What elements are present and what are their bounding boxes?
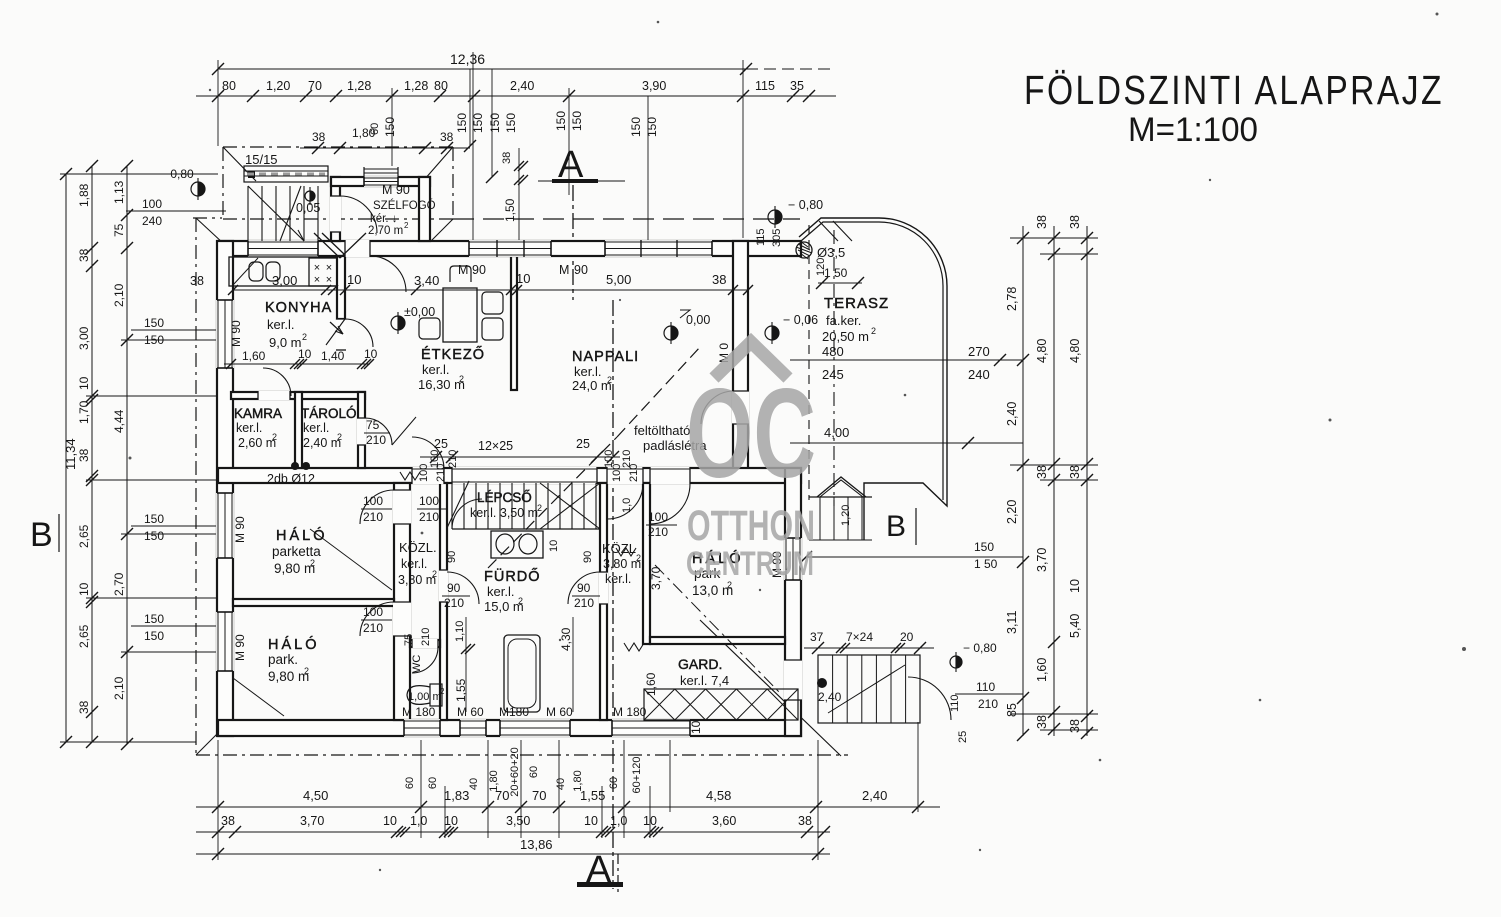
svg-text:4,80: 4,80 bbox=[1068, 339, 1082, 363]
door opening mid wall kozl2 bbox=[607, 467, 643, 484]
svg-text:60+120: 60+120 bbox=[631, 756, 643, 793]
svg-text:90: 90 bbox=[472, 263, 486, 277]
svg-text:10: 10 bbox=[1068, 579, 1082, 593]
svg-text:×: × bbox=[326, 274, 332, 286]
toilet bbox=[430, 684, 442, 706]
door arc furdo bbox=[447, 572, 479, 604]
window label 150/150 right halo3 bbox=[806, 556, 1023, 558]
svg-text:ker.l. 7,4: ker.l. 7,4 bbox=[680, 673, 729, 688]
svg-text:38: 38 bbox=[1068, 465, 1082, 479]
svg-text:10: 10 bbox=[347, 272, 361, 287]
lepcso stair treads 12x25 bbox=[451, 483, 453, 529]
svg-text:16,30 m: 16,30 m bbox=[418, 377, 465, 392]
svg-text:4,50: 4,50 bbox=[303, 788, 328, 803]
lepcso diagonal cross bbox=[540, 483, 600, 529]
svg-text:− 0,06: − 0,06 bbox=[783, 313, 818, 327]
svg-text:2,10: 2,10 bbox=[112, 283, 126, 307]
svg-text:2,40: 2,40 bbox=[862, 788, 887, 803]
dim line etkezo nappali y290 bbox=[345, 289, 748, 291]
svg-text:10: 10 bbox=[689, 720, 703, 734]
entry arrow V bbox=[314, 233, 340, 258]
svg-text:1,50: 1,50 bbox=[503, 198, 517, 222]
svg-text:210: 210 bbox=[435, 464, 447, 482]
roof eave segment above kitchen bbox=[193, 217, 222, 219]
porch eave diagonal bottom-right bbox=[430, 219, 453, 242]
window bottom wall furdo M180 bbox=[500, 719, 570, 737]
svg-text:150: 150 bbox=[144, 333, 164, 347]
svg-text:75: 75 bbox=[112, 223, 126, 237]
dim chain top row overall 12,36 bbox=[218, 68, 746, 70]
door opening kamra top bbox=[258, 391, 290, 400]
svg-text:1,83: 1,83 bbox=[444, 788, 469, 803]
svg-text:OC: OC bbox=[686, 362, 816, 504]
wall interior middle horizontal bbox=[218, 468, 801, 483]
side porch gable bbox=[817, 477, 866, 497]
svg-text:2: 2 bbox=[272, 432, 277, 442]
dim vertical 1,50 below A mark bbox=[518, 148, 520, 241]
terasz posts line dash-dot bbox=[833, 230, 835, 506]
room diagonal halo park bbox=[233, 678, 284, 716]
svg-text:150: 150 bbox=[144, 529, 164, 543]
wall kamra/tarolo divider bbox=[295, 392, 302, 468]
watermark OC letters bbox=[686, 362, 816, 583]
svg-text:KÖZL: KÖZL bbox=[602, 541, 636, 556]
svg-text:2: 2 bbox=[310, 558, 315, 568]
bathtub bbox=[504, 635, 540, 712]
svg-text:150: 150 bbox=[455, 113, 469, 133]
svg-text:150: 150 bbox=[629, 117, 643, 137]
door arc mid wall kozl1 to nappali bbox=[412, 437, 444, 469]
door arc mid wall kozl2 to nappali bbox=[607, 483, 643, 519]
svg-text:ÉTKEZŐ: ÉTKEZŐ bbox=[421, 346, 485, 363]
door opening szelfogo left wall bbox=[330, 196, 341, 232]
wall szelfogo top bbox=[331, 177, 430, 186]
svg-text:1,40: 1,40 bbox=[321, 349, 345, 363]
svg-text:10: 10 bbox=[444, 814, 458, 828]
dim chain left outer 11,34 bbox=[65, 174, 67, 742]
svg-text:150: 150 bbox=[144, 629, 164, 643]
wall kozl2/halo3 vertical bbox=[643, 483, 650, 644]
svg-text:M 180: M 180 bbox=[613, 705, 647, 719]
dim left horizontal ext lines bbox=[60, 173, 218, 175]
svg-text:1,20: 1,20 bbox=[266, 79, 290, 93]
door arc kamra bbox=[263, 368, 291, 396]
wall exterior right lower bbox=[785, 468, 801, 736]
entry stairs treads 15/15 bbox=[247, 186, 249, 241]
svg-text:210: 210 bbox=[363, 621, 383, 635]
window right wall halo3 150 bbox=[784, 538, 802, 580]
svg-text:1,00 m: 1,00 m bbox=[408, 691, 442, 703]
svg-text:100: 100 bbox=[363, 605, 383, 619]
door opening mid wall lepcso bbox=[452, 467, 597, 484]
door opening konyha wall bbox=[336, 319, 346, 350]
svg-text:ker.l.: ker.l. bbox=[303, 421, 329, 435]
svg-text:3,70: 3,70 bbox=[1035, 548, 1049, 572]
svg-text:OTTHON: OTTHON bbox=[687, 502, 815, 550]
svg-text:− 0,80: − 0,80 bbox=[788, 198, 823, 212]
svg-text:1 50: 1 50 bbox=[974, 557, 998, 571]
wall szelfogo right bbox=[419, 177, 430, 241]
svg-text:25: 25 bbox=[434, 437, 448, 451]
door arc exterior stair bbox=[908, 677, 951, 720]
bottom dim extension lines bbox=[217, 740, 219, 860]
dim chain right col1 bbox=[1022, 226, 1024, 736]
svg-text:210: 210 bbox=[648, 525, 668, 539]
section line A-A upper bbox=[572, 185, 574, 300]
level marker etkezo bbox=[391, 316, 405, 330]
svg-text:25: 25 bbox=[957, 731, 969, 743]
svg-text:1,20: 1,20 bbox=[840, 505, 852, 526]
svg-text:90: 90 bbox=[574, 263, 588, 277]
window porch szelfogo bbox=[364, 176, 398, 187]
svg-text:4,44: 4,44 bbox=[112, 409, 126, 433]
wall bedrooms/kozl vertical bbox=[394, 483, 410, 720]
svg-text:4,30: 4,30 bbox=[559, 627, 573, 651]
door opening szelfogo to house bbox=[345, 240, 370, 257]
svg-text:2,20: 2,20 bbox=[1005, 500, 1019, 524]
window top wall konyha bbox=[248, 240, 318, 257]
svg-text:60: 60 bbox=[427, 777, 439, 789]
svg-text:1,28: 1,28 bbox=[404, 79, 428, 93]
svg-text:13,86: 13,86 bbox=[520, 837, 553, 852]
svg-text:GARD.: GARD. bbox=[678, 656, 722, 672]
door opening mid wall kozl1 bbox=[412, 467, 444, 484]
svg-text:M 90: M 90 bbox=[229, 320, 243, 347]
svg-text:M 90: M 90 bbox=[233, 634, 247, 661]
dim vertical labels 150 150 porch bbox=[469, 69, 471, 146]
svg-text:2,70: 2,70 bbox=[112, 572, 126, 596]
room diagonal halo3 bbox=[655, 565, 782, 695]
svg-text:210: 210 bbox=[447, 450, 459, 468]
svg-text:4,58: 4,58 bbox=[706, 788, 731, 803]
svg-text:1,0: 1,0 bbox=[621, 498, 633, 513]
svg-text:210: 210 bbox=[978, 697, 998, 711]
svg-text:10: 10 bbox=[383, 814, 397, 828]
svg-text:M 180: M 180 bbox=[402, 705, 436, 719]
svg-text:1,60: 1,60 bbox=[1035, 658, 1049, 682]
svg-text:11,34: 11,34 bbox=[63, 438, 78, 470]
dim 12x25 line bbox=[420, 456, 620, 458]
door arc wc bbox=[412, 647, 438, 673]
svg-text:TÁROLÓ: TÁROLÓ bbox=[301, 406, 357, 421]
svg-text:210: 210 bbox=[419, 510, 439, 524]
wall konyha right bbox=[337, 256, 345, 319]
svg-text:115: 115 bbox=[755, 79, 775, 93]
door opening wc bbox=[412, 639, 438, 648]
gard wardrobe x-hatch bbox=[644, 689, 798, 720]
svg-text:110: 110 bbox=[949, 694, 961, 712]
svg-text:2,70 m: 2,70 m bbox=[368, 225, 403, 237]
wall exterior top bbox=[218, 241, 801, 256]
svg-text:100: 100 bbox=[648, 510, 668, 524]
svg-text:110: 110 bbox=[976, 680, 995, 694]
svg-text:− 0,80: − 0,80 bbox=[963, 641, 997, 655]
svg-text:ker.l.: ker.l. bbox=[487, 584, 514, 599]
room diagonal halo parketta bbox=[310, 529, 392, 590]
door opening mid wall halo3 bbox=[650, 467, 690, 484]
svg-text:10: 10 bbox=[77, 582, 91, 596]
svg-text:115: 115 bbox=[755, 228, 767, 246]
kitchen counter bbox=[229, 257, 337, 286]
level marker 0,05 porch bbox=[305, 191, 315, 201]
svg-text:M 60: M 60 bbox=[457, 705, 484, 719]
svg-text:10: 10 bbox=[364, 347, 378, 361]
svg-text:3,70: 3,70 bbox=[649, 566, 663, 590]
svg-text:270: 270 bbox=[968, 344, 990, 359]
svg-text:40: 40 bbox=[555, 778, 567, 790]
svg-text:2,65: 2,65 bbox=[77, 524, 91, 548]
svg-text:210: 210 bbox=[574, 596, 594, 610]
svg-text:12,36: 12,36 bbox=[450, 51, 485, 67]
svg-text:1,70: 1,70 bbox=[77, 400, 91, 424]
door arc tarolo bbox=[365, 418, 392, 445]
svg-text:0,00: 0,00 bbox=[686, 313, 710, 327]
svg-text:3,80 m: 3,80 m bbox=[398, 573, 436, 587]
dim lines furdo interior bbox=[572, 617, 574, 712]
door opening kozl2 door bbox=[599, 572, 608, 604]
dim chain bottom row3 13,86 bbox=[196, 853, 830, 855]
dim label 110/210 right bottom bbox=[955, 693, 1023, 695]
svg-text:ker.l. 3,50 m: ker.l. 3,50 m bbox=[470, 506, 538, 520]
svg-text:3,90: 3,90 bbox=[642, 79, 666, 93]
door arc szelfogo entry bbox=[340, 196, 377, 233]
svg-text:3,50: 3,50 bbox=[506, 814, 530, 828]
dim line 4,00 terasz bbox=[790, 442, 1023, 444]
svg-text:2,60 m: 2,60 m bbox=[238, 436, 276, 450]
svg-text:38: 38 bbox=[1068, 719, 1082, 733]
svg-text:2: 2 bbox=[871, 326, 876, 336]
svg-text:2,40 m: 2,40 m bbox=[303, 436, 341, 450]
svg-text:90: 90 bbox=[446, 551, 458, 563]
door opening furdo bbox=[439, 570, 448, 602]
svg-text:10: 10 bbox=[516, 271, 530, 286]
svg-text:M180: M180 bbox=[499, 705, 529, 719]
svg-text:60: 60 bbox=[404, 777, 416, 789]
svg-text:2: 2 bbox=[404, 221, 409, 230]
door opening exterior stair bbox=[784, 660, 802, 700]
wall etkezo/nappali divider bbox=[511, 256, 517, 390]
svg-text:M 60: M 60 bbox=[546, 705, 573, 719]
svg-text:ker.l.: ker.l. bbox=[605, 572, 631, 586]
wall furdo right vertical bbox=[600, 483, 607, 720]
svg-text:40: 40 bbox=[468, 778, 480, 790]
svg-text:10: 10 bbox=[548, 540, 560, 552]
dim chain top row2 detail bbox=[196, 95, 836, 97]
svg-text:CENTRUM: CENTRUM bbox=[686, 545, 814, 583]
svg-text:2: 2 bbox=[337, 432, 342, 442]
svg-text:35: 35 bbox=[790, 79, 804, 93]
svg-text:ker.l.: ker.l. bbox=[401, 557, 427, 571]
dim line konyha top bbox=[233, 289, 345, 291]
dim chain porch 38 1,80 38 bbox=[300, 147, 470, 149]
svg-text:10: 10 bbox=[584, 814, 598, 828]
svg-text:2,40: 2,40 bbox=[818, 690, 842, 704]
lepcso entry arc bbox=[452, 499, 482, 529]
dim chain bottom row1 bbox=[196, 806, 940, 808]
wall kozl/furdo vertical bbox=[440, 483, 447, 720]
door opening terasz from nappali bbox=[732, 391, 749, 424]
dim chain left col3 bbox=[126, 166, 128, 744]
window top wall etkezo M90 bbox=[469, 240, 551, 257]
wall szelfogo left bbox=[331, 177, 340, 241]
svg-text:KONYHA: KONYHA bbox=[265, 300, 332, 316]
svg-text:1,28: 1,28 bbox=[347, 79, 371, 93]
scan specks bbox=[1436, 13, 1439, 16]
svg-text:HÁLÓ: HÁLÓ bbox=[276, 527, 328, 544]
svg-text:38: 38 bbox=[440, 130, 454, 144]
svg-text:1,10: 1,10 bbox=[454, 621, 466, 642]
svg-text:KAMRA: KAMRA bbox=[234, 406, 282, 421]
terasz column hatched bbox=[796, 242, 812, 258]
svg-text:2: 2 bbox=[459, 374, 464, 384]
door arc kozl2 bbox=[568, 572, 600, 604]
svg-text:2: 2 bbox=[537, 503, 542, 513]
svg-text:150: 150 bbox=[570, 111, 584, 131]
svg-text:1,55: 1,55 bbox=[454, 678, 468, 702]
svg-text:1,60: 1,60 bbox=[242, 349, 266, 363]
svg-text:100: 100 bbox=[363, 494, 383, 508]
porch eave diagonal right bbox=[424, 148, 452, 180]
svg-text:150: 150 bbox=[554, 111, 568, 131]
door opening halo parketta bbox=[393, 490, 411, 524]
wall exterior left bbox=[217, 241, 233, 736]
exterior stair 7x24 bbox=[818, 655, 920, 723]
svg-text:37: 37 bbox=[810, 630, 824, 644]
svg-text:38: 38 bbox=[77, 448, 91, 462]
svg-text:ker.l.: ker.l. bbox=[422, 362, 449, 377]
window left wall halo2 150 bbox=[216, 612, 234, 671]
svg-text:80: 80 bbox=[434, 79, 448, 93]
svg-text:2: 2 bbox=[432, 569, 437, 579]
dim chain left col2 bbox=[91, 166, 93, 742]
level marker nappali bbox=[664, 326, 678, 340]
dining table bbox=[443, 288, 477, 342]
door arc konyha bbox=[345, 319, 373, 347]
svg-text:38: 38 bbox=[1035, 215, 1049, 229]
terasz roof hip diagonals bbox=[819, 221, 838, 241]
window left wall halo1 150 bbox=[216, 493, 234, 558]
svg-text:60: 60 bbox=[608, 777, 620, 789]
window bottom wall furdo M60 bbox=[460, 719, 486, 737]
svg-text:38: 38 bbox=[77, 248, 91, 262]
attic ladder dashed diagonal bbox=[617, 346, 701, 437]
svg-text:1,88: 1,88 bbox=[77, 183, 91, 207]
svg-text:M=1:100: M=1:100 bbox=[1128, 111, 1258, 149]
dim right horizontal connectors bbox=[1010, 237, 1098, 239]
svg-text:B: B bbox=[30, 516, 53, 554]
svg-text:2: 2 bbox=[440, 687, 445, 696]
svg-text:LÉPCSŐ: LÉPCSŐ bbox=[477, 490, 532, 505]
door arc terasz bbox=[701, 391, 734, 424]
svg-text:feltöltható: feltöltható bbox=[634, 423, 690, 438]
svg-text:KÖZL.: KÖZL. bbox=[399, 540, 437, 555]
window label 150/150 left halo1 bbox=[131, 525, 217, 527]
wall under konyha bbox=[231, 392, 365, 399]
svg-text:150: 150 bbox=[974, 540, 994, 554]
window label 150/150 left halo2 bbox=[131, 625, 217, 627]
svg-text:70: 70 bbox=[532, 788, 546, 803]
terasz edge dashed bbox=[808, 225, 810, 500]
svg-text:150: 150 bbox=[144, 512, 164, 526]
porch eave diagonal left bbox=[223, 147, 256, 181]
door arc halo parketta bbox=[360, 490, 394, 524]
dim line 480/245 terasz bbox=[790, 359, 1023, 361]
window bottom wall gard M180 bbox=[612, 719, 690, 737]
wall halo divider horizontal bbox=[233, 599, 394, 606]
svg-text:100: 100 bbox=[611, 464, 623, 482]
svg-text:150: 150 bbox=[504, 113, 518, 133]
svg-text:305: 305 bbox=[771, 229, 783, 247]
door opening tarolo right bbox=[357, 418, 366, 445]
svg-text:ker.l.: ker.l. bbox=[267, 317, 294, 332]
svg-text:1,0: 1,0 bbox=[410, 814, 427, 828]
kitchen stove bbox=[309, 258, 337, 286]
radiator zigzag kozl2 upper bbox=[616, 548, 636, 556]
svg-text:5,40: 5,40 bbox=[1068, 614, 1082, 638]
level marker -0,80 terasz top bbox=[768, 210, 782, 224]
terasz roof outline outer bbox=[799, 218, 947, 540]
svg-text:1,13: 1,13 bbox=[112, 180, 126, 204]
svg-text:2: 2 bbox=[302, 332, 307, 342]
svg-text:80: 80 bbox=[222, 79, 236, 93]
svg-text:M: M bbox=[458, 263, 468, 277]
svg-text:4,80: 4,80 bbox=[1035, 339, 1049, 363]
svg-text:25: 25 bbox=[576, 437, 590, 451]
svg-text:210: 210 bbox=[444, 596, 464, 610]
porch eave outline bbox=[222, 147, 224, 219]
level marker -0,80 bottom right bbox=[950, 656, 962, 668]
svg-text:2: 2 bbox=[518, 596, 523, 606]
svg-text:38: 38 bbox=[312, 130, 326, 144]
svg-text:3,00: 3,00 bbox=[272, 273, 297, 288]
wall exterior bottom bbox=[218, 720, 801, 736]
roof eave outline bottom bbox=[196, 754, 848, 756]
svg-text:2: 2 bbox=[607, 375, 612, 385]
svg-text:NAPPALI: NAPPALI bbox=[572, 349, 639, 365]
svg-text:2: 2 bbox=[304, 666, 309, 676]
window top wall nappali M90 bbox=[605, 240, 712, 257]
svg-text:2: 2 bbox=[636, 553, 641, 563]
svg-text:150: 150 bbox=[488, 113, 502, 133]
kitchen sink bowls bbox=[249, 262, 263, 281]
svg-text:38: 38 bbox=[190, 274, 204, 288]
side porch steps bbox=[819, 497, 821, 540]
washbasin counter bbox=[491, 531, 543, 558]
wall halo3/gard divider bbox=[650, 637, 785, 644]
svg-text:FÜRDŐ: FÜRDŐ bbox=[484, 567, 541, 585]
dim row under konyha bbox=[224, 363, 370, 365]
roof eave corner diagonal bottom-left bbox=[196, 729, 222, 755]
svg-text:fa.ker.: fa.ker. bbox=[826, 313, 861, 328]
svg-text:5,00: 5,00 bbox=[606, 272, 631, 287]
svg-text:2,78: 2,78 bbox=[1005, 287, 1019, 311]
svg-text:10: 10 bbox=[298, 347, 312, 361]
svg-text:2,40: 2,40 bbox=[1005, 402, 1019, 426]
dim label 100/240 left top bbox=[126, 210, 226, 212]
svg-text:M 90: M 90 bbox=[382, 183, 410, 197]
svg-text:210: 210 bbox=[420, 628, 432, 646]
dim chain right col2 bbox=[1053, 226, 1055, 736]
roof valley diagonal through gard bbox=[700, 620, 841, 756]
svg-text:9,0 m: 9,0 m bbox=[269, 335, 302, 350]
svg-text:210: 210 bbox=[366, 433, 386, 447]
svg-text:2,65: 2,65 bbox=[77, 624, 91, 648]
svg-text:150: 150 bbox=[471, 113, 485, 133]
svg-text:3,00: 3,00 bbox=[77, 326, 91, 350]
svg-text:240: 240 bbox=[968, 367, 990, 382]
entry stairs diagonal bbox=[248, 186, 304, 241]
svg-text:− 0,80: − 0,80 bbox=[160, 167, 194, 181]
